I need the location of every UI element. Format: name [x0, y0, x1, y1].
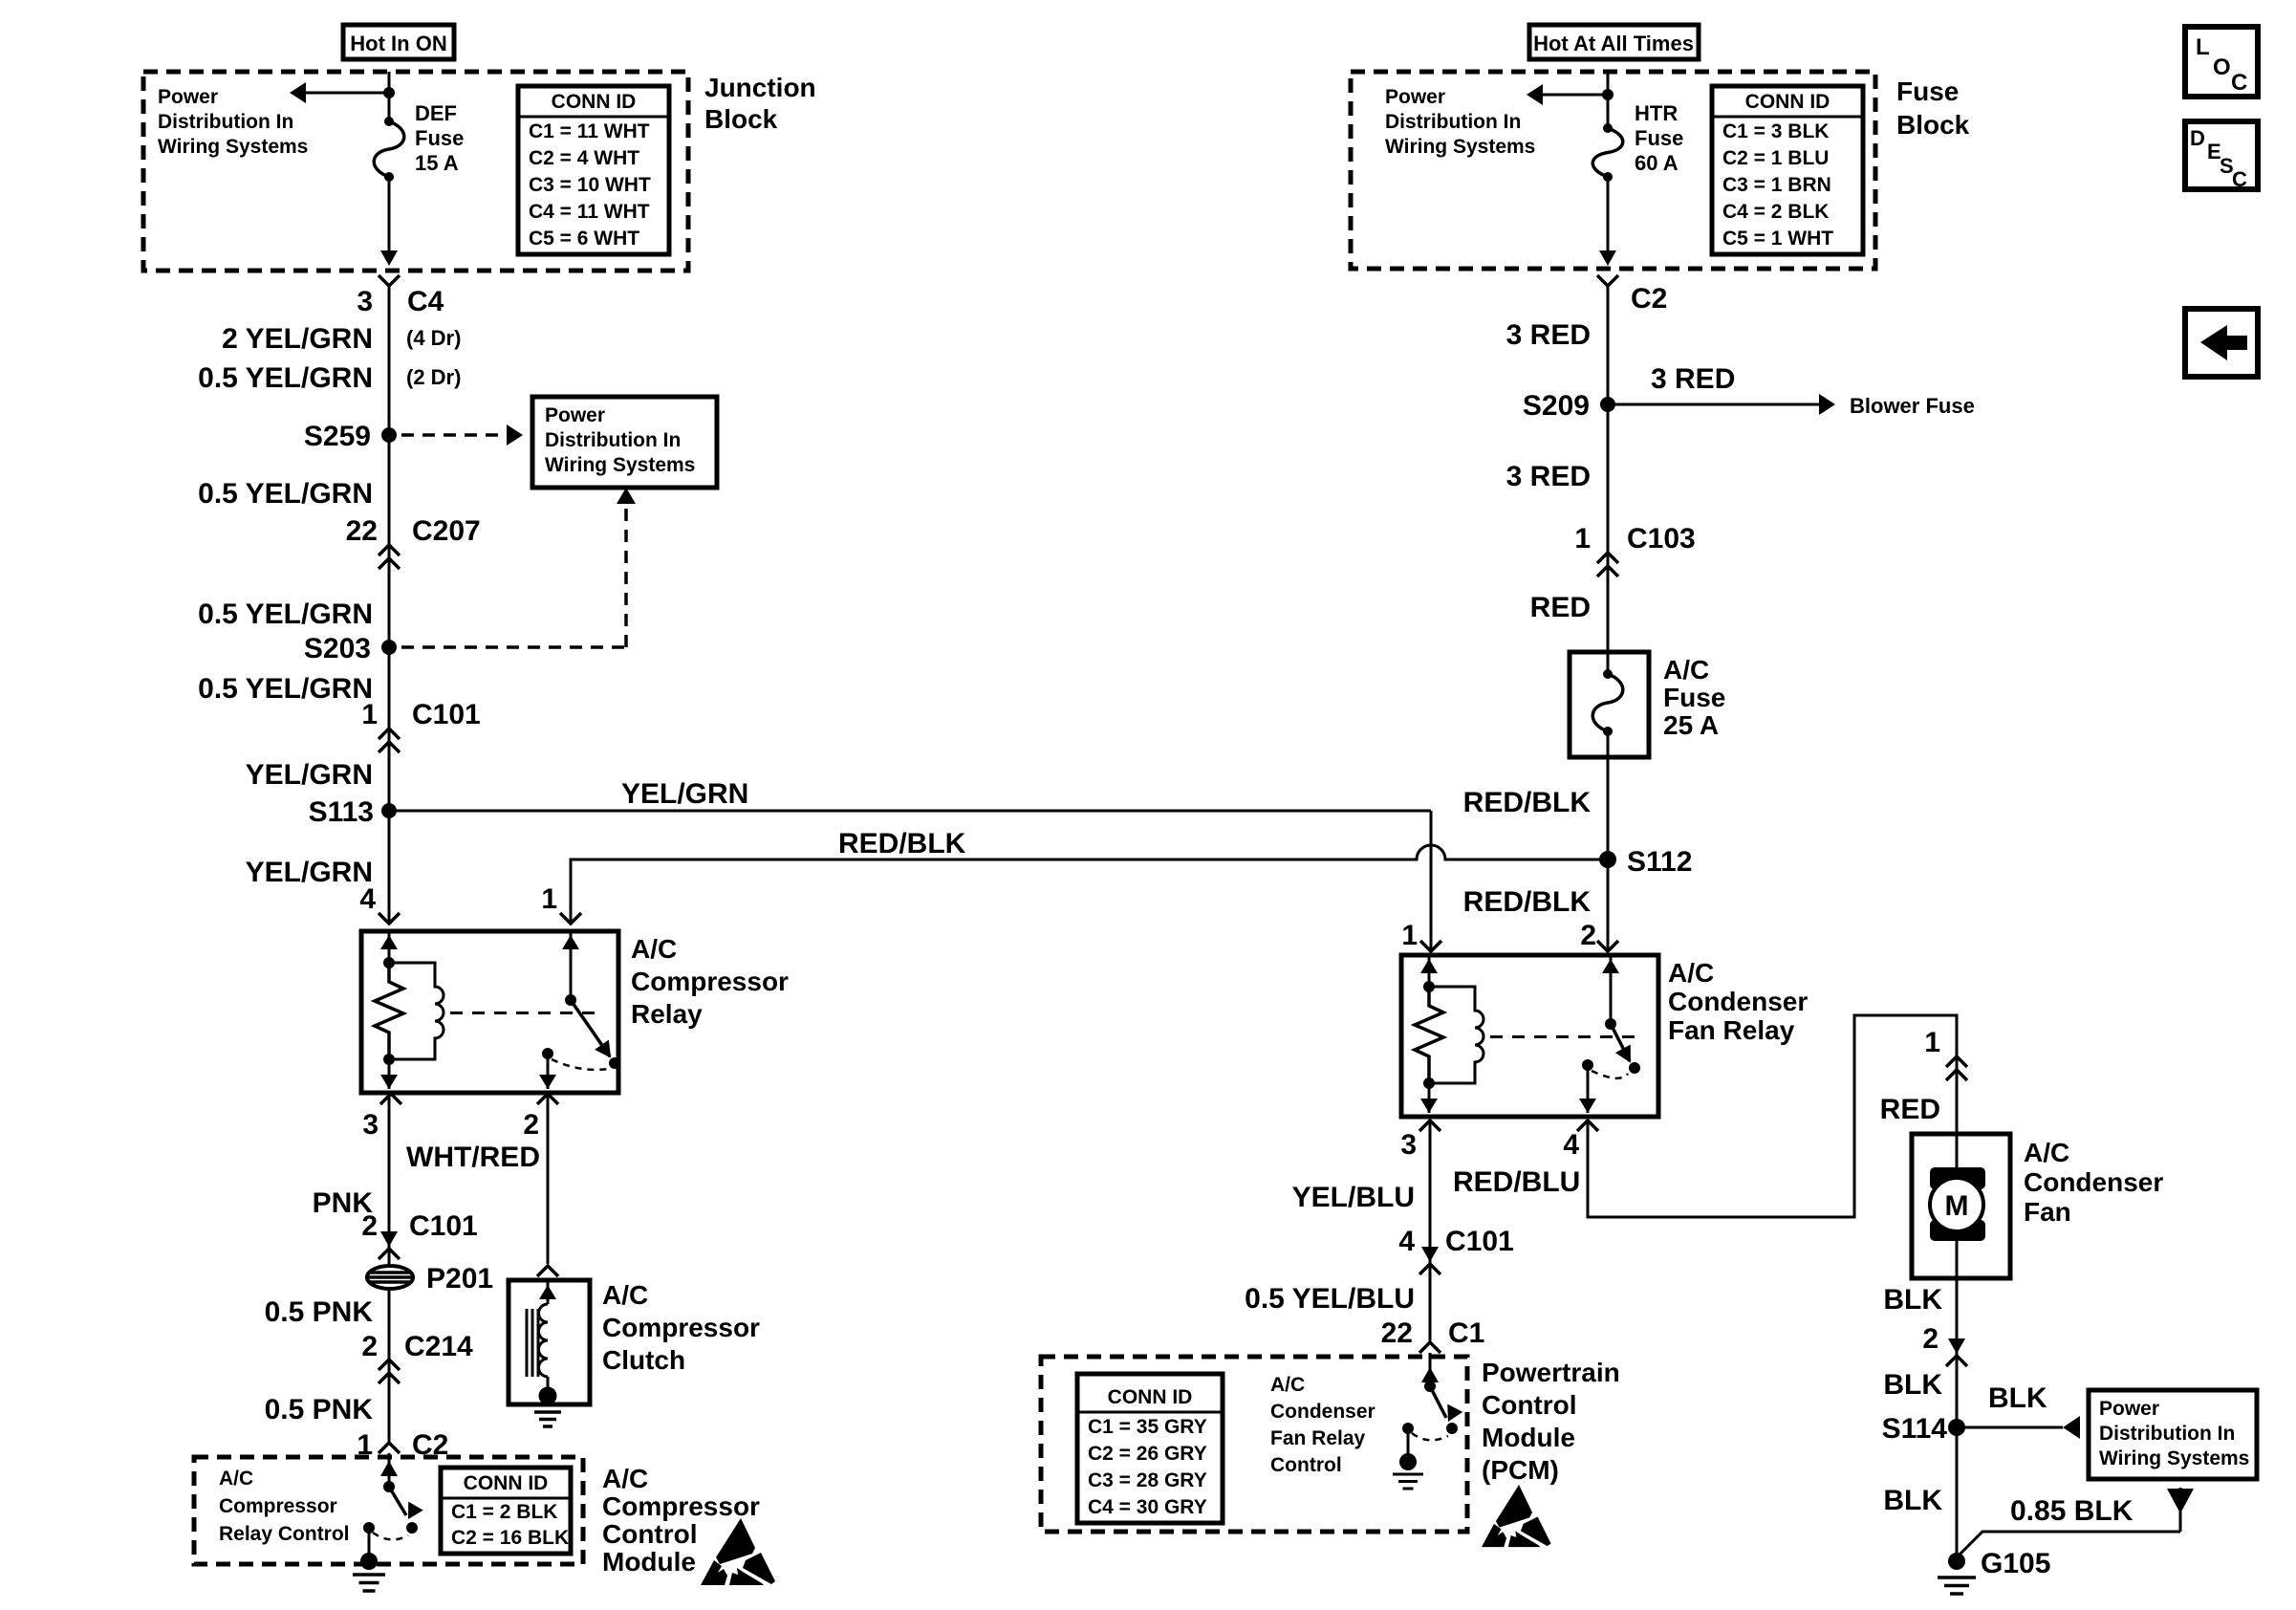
- wire: feed into DEF fuse: [388, 72, 391, 121]
- svg-text:4: 4: [359, 883, 376, 915]
- node at junction feed: [383, 87, 395, 98]
- relay K: A/C Condenser Fan Relay switch: [1610, 957, 1613, 1024]
- svg-text:C103: C103: [1627, 523, 1696, 555]
- svg-text:Power: Power: [545, 404, 605, 426]
- svg-text:A/C: A/C: [602, 1280, 648, 1310]
- splice S113: [381, 803, 397, 818]
- svg-text:0.5 YEL/GRN: 0.5 YEL/GRN: [198, 673, 373, 705]
- ground at clutch: [539, 1387, 557, 1405]
- svg-text:C5 = 1 WHT: C5 = 1 WHT: [1722, 228, 1833, 250]
- wire: S114 to power distribution, BLK: [1957, 1426, 2063, 1429]
- svg-text:Compressor: Compressor: [602, 1491, 760, 1521]
- relay K: A/C Compressor Relay coil branch: [388, 933, 391, 963]
- svg-text:1: 1: [1924, 1027, 1940, 1058]
- svg-text:C1: C1: [1448, 1317, 1484, 1349]
- svg-text:M: M: [1945, 1190, 1969, 1222]
- wire: C4 to S259, YEL/GRN: [388, 286, 391, 435]
- wire: fan to pin 2, BLK: [1956, 1278, 1959, 1427]
- svg-text:HTR: HTR: [1635, 101, 1678, 125]
- svg-text:60 A: 60 A: [1635, 151, 1679, 175]
- wire: S209 to blower fuse, 3 RED: [1608, 403, 1819, 406]
- svg-text:C2 = 1 BLU: C2 = 1 BLU: [1722, 147, 1829, 169]
- svg-text:0.5 YEL/BLU: 0.5 YEL/BLU: [1245, 1283, 1415, 1315]
- box: Power Distribution In Wiring Systems (right): [2089, 1390, 2257, 1479]
- svg-text:YEL/BLU: YEL/BLU: [1292, 1182, 1415, 1213]
- svg-text:A/C: A/C: [1668, 958, 1714, 988]
- svg-text:Hot At All Times: Hot At All Times: [1533, 32, 1694, 55]
- svg-text:Powertrain: Powertrain: [1482, 1358, 1620, 1387]
- wire into module: [388, 1453, 391, 1487]
- fuse block dashed box: [1351, 72, 1875, 269]
- box: Power Distribution In Wiring Systems (ref): [532, 397, 717, 488]
- wire: arrow to power distribution (fuse block): [1539, 94, 1608, 97]
- svg-text:Compressor: Compressor: [602, 1313, 760, 1342]
- svg-text:S112: S112: [1627, 846, 1692, 878]
- svg-text:Blower Fuse: Blower Fuse: [1850, 394, 1975, 418]
- wire: feed into HTR fuse: [1607, 72, 1610, 128]
- wire: S203 to C101, 0.5 YEL/GRN: [388, 647, 391, 811]
- svg-text:RED: RED: [1530, 592, 1591, 623]
- svg-text:DEF: DEF: [415, 101, 457, 125]
- conn table: module CONN ID: [441, 1468, 571, 1554]
- svg-text:BLK: BLK: [1883, 1485, 1942, 1516]
- relay K: A/C Condenser Fan Relay actuation dashed link: [1490, 1035, 1636, 1038]
- component: A/C Compressor Clutch box: [509, 1280, 590, 1404]
- switch: condenser fan relay driver: [1424, 1381, 1436, 1392]
- svg-text:CONN ID: CONN ID: [552, 91, 637, 113]
- svg-text:C: C: [2231, 70, 2247, 96]
- wire: C2 to S209, 3 RED: [1607, 286, 1610, 404]
- wire: A/C fuse to S112, RED/BLK: [1607, 757, 1610, 859]
- wire: RED/BLK from S112 west to compressor relay pin 1 with hop: [571, 845, 1608, 924]
- svg-text:22: 22: [346, 515, 378, 547]
- svg-text:S203: S203: [304, 633, 371, 664]
- svg-text:2: 2: [1580, 920, 1596, 951]
- fuse F: A/C Fuse 25 A box: [1570, 652, 1649, 757]
- svg-text:C207: C207: [412, 515, 481, 547]
- svg-text:Condenser: Condenser: [1270, 1401, 1375, 1423]
- relay K: A/C Condenser Fan Relay box: [1401, 955, 1658, 1117]
- svg-text:4: 4: [1398, 1226, 1415, 1257]
- svg-text:1: 1: [1574, 523, 1591, 555]
- svg-text:0.5 PNK: 0.5 PNK: [265, 1394, 374, 1425]
- wire: YEL/GRN from S113 to condenser fan relay pin 1: [389, 810, 1431, 813]
- relay K: A/C Condenser Fan Relay coil branch: [1428, 957, 1431, 987]
- icon box: back arrow: [2185, 309, 2258, 377]
- icon box: LOC: [2185, 27, 2258, 97]
- svg-text:Distribution In: Distribution In: [2099, 1423, 2235, 1445]
- svg-text:Fan Relay: Fan Relay: [1270, 1427, 1366, 1449]
- icon box: DESC: [2185, 121, 2258, 189]
- relay pin 3 connector: [380, 1094, 401, 1104]
- svg-text:1: 1: [1401, 920, 1418, 951]
- svg-text:0.5 YEL/GRN: 0.5 YEL/GRN: [198, 598, 373, 630]
- connector C2 (fuse block exit): [1597, 275, 1618, 286]
- svg-text:Hot In ON: Hot In ON: [350, 32, 446, 55]
- svg-text:A/C: A/C: [631, 934, 677, 964]
- splice pack P201: [367, 1266, 413, 1289]
- svg-text:Relay: Relay: [631, 999, 703, 1029]
- svg-text:C1 = 3 BLK: C1 = 3 BLK: [1722, 120, 1829, 142]
- svg-text:Control: Control: [1482, 1390, 1577, 1420]
- component: A/C Condenser Fan box: [1912, 1134, 2010, 1278]
- svg-text:RED/BLK: RED/BLK: [1463, 787, 1592, 818]
- svg-text:C4 = 2 BLK: C4 = 2 BLK: [1722, 201, 1829, 223]
- svg-text:C3 = 1 BRN: C3 = 1 BRN: [1722, 174, 1831, 196]
- splice S112: [1599, 851, 1616, 868]
- svg-text:C4: C4: [407, 286, 444, 317]
- dashed wire: S259 to power distribution: [401, 433, 505, 437]
- svg-text:Module: Module: [602, 1547, 696, 1577]
- conn table: junction block CONN ID: [518, 86, 669, 254]
- svg-text:C3 = 28 GRY: C3 = 28 GRY: [1088, 1469, 1207, 1491]
- svg-text:2: 2: [1922, 1323, 1939, 1355]
- wire: P201 to C214, 0.5 PNK: [388, 1288, 391, 1443]
- fan relay pin 3 connector: [1419, 1120, 1440, 1131]
- junction block dashed box: [143, 72, 688, 271]
- svg-text:Power: Power: [1385, 86, 1445, 108]
- ground (module internal): [360, 1553, 378, 1570]
- svg-text:0.85 BLK: 0.85 BLK: [2010, 1495, 2134, 1527]
- ground (PCM internal): [1399, 1453, 1417, 1470]
- relay K: A/C Compressor Relay resistor: [375, 963, 403, 1059]
- wire to ground inside module: [368, 1528, 371, 1560]
- svg-text:1: 1: [361, 699, 378, 730]
- svg-text:C4 = 30 GRY: C4 = 30 GRY: [1088, 1496, 1207, 1518]
- svg-text:A/C: A/C: [2024, 1138, 2069, 1167]
- svg-text:YEL/GRN: YEL/GRN: [246, 857, 373, 888]
- relay K: A/C Compressor Relay box: [361, 931, 618, 1093]
- svg-text:Condenser: Condenser: [1668, 987, 1808, 1016]
- svg-text:S209: S209: [1523, 390, 1590, 422]
- svg-text:0.5 PNK: 0.5 PNK: [265, 1296, 374, 1328]
- svg-text:0.5 YEL/GRN: 0.5 YEL/GRN: [198, 478, 373, 510]
- svg-text:C2 = 4 WHT: C2 = 4 WHT: [529, 147, 639, 169]
- wire: S259 to C207, 0.5 YEL/GRN: [388, 435, 391, 647]
- svg-text:2 YEL/GRN: 2 YEL/GRN: [222, 323, 373, 355]
- svg-text:4: 4: [1563, 1129, 1579, 1161]
- svg-text:C2: C2: [1631, 283, 1667, 315]
- conn table: fuse block CONN ID: [1712, 86, 1863, 254]
- splice S203: [381, 640, 397, 655]
- svg-text:C4 = 11 WHT: C4 = 11 WHT: [529, 201, 650, 223]
- relay K: A/C Compressor Relay actuation dashed link: [450, 1012, 596, 1014]
- motor M: [1956, 1134, 1959, 1172]
- icon: ESD sensitivity (PCM): [1482, 1485, 1551, 1547]
- relay K: A/C Compressor Relay switch: [570, 933, 573, 1000]
- svg-text:Junction: Junction: [704, 73, 816, 102]
- svg-text:A/C: A/C: [219, 1468, 253, 1490]
- svg-text:A/C: A/C: [602, 1464, 648, 1493]
- svg-text:C5 = 6 WHT: C5 = 6 WHT: [529, 228, 639, 250]
- svg-text:Power: Power: [158, 86, 218, 108]
- ground G105: [1948, 1553, 1965, 1570]
- svg-text:15 A: 15 A: [415, 151, 459, 175]
- wire: pin 3 down, PNK: [388, 1094, 391, 1267]
- svg-text:Wiring Systems: Wiring Systems: [545, 454, 695, 476]
- svg-text:Power: Power: [2099, 1398, 2159, 1420]
- svg-text:C101: C101: [409, 1210, 478, 1242]
- svg-text:CONN ID: CONN ID: [464, 1472, 549, 1494]
- svg-text:3 RED: 3 RED: [1506, 319, 1591, 351]
- wire: S113 down to relay pin 4, YEL/GRN: [388, 811, 391, 924]
- svg-text:O: O: [2213, 54, 2231, 80]
- relay K: A/C Condenser Fan Relay resistor: [1415, 987, 1443, 1083]
- wire: arrow to power distribution: [302, 92, 389, 95]
- svg-text:BLK: BLK: [1883, 1369, 1942, 1401]
- svg-text:CONN ID: CONN ID: [1745, 91, 1830, 113]
- svg-text:Wiring Systems: Wiring Systems: [2099, 1447, 2249, 1469]
- svg-text:Control: Control: [602, 1519, 698, 1549]
- svg-text:3: 3: [357, 286, 373, 317]
- wire: pin 4 RED/BLU to condenser fan: [1588, 1015, 1957, 1217]
- fuse F: HTR Fuse 60 A: [1603, 123, 1613, 133]
- svg-text:3 RED: 3 RED: [1651, 363, 1735, 395]
- svg-text:Clutch: Clutch: [602, 1345, 685, 1375]
- relay K: A/C Compressor Relay coil: [389, 963, 444, 1059]
- svg-text:22: 22: [1381, 1317, 1413, 1349]
- wire: HTR fuse to C2: [1607, 177, 1610, 262]
- svg-text:P201: P201: [426, 1263, 493, 1295]
- svg-text:3 RED: 3 RED: [1506, 461, 1591, 492]
- svg-text:Fan Relay: Fan Relay: [1668, 1015, 1795, 1045]
- icon: ESD sensitivity (compressor module): [701, 1518, 775, 1585]
- svg-text:C3 = 10 WHT: C3 = 10 WHT: [529, 174, 651, 196]
- svg-text:G105: G105: [1981, 1548, 2050, 1579]
- clutch coil: [539, 1304, 549, 1377]
- connector C4 (junction block exit): [379, 275, 400, 286]
- svg-text:Fuse: Fuse: [1896, 76, 1959, 106]
- svg-text:RED/BLK: RED/BLK: [838, 828, 966, 859]
- svg-text:Module: Module: [1482, 1423, 1575, 1452]
- svg-text:(2 Dr): (2 Dr): [406, 365, 461, 389]
- svg-text:Distribution In: Distribution In: [158, 111, 293, 133]
- svg-text:Distribution In: Distribution In: [1385, 111, 1521, 133]
- svg-text:Condenser: Condenser: [2024, 1167, 2163, 1197]
- svg-text:(4 Dr): (4 Dr): [406, 326, 461, 350]
- svg-text:C2 = 26 GRY: C2 = 26 GRY: [1088, 1443, 1207, 1465]
- svg-text:Wiring Systems: Wiring Systems: [158, 136, 308, 158]
- svg-text:BLK: BLK: [1988, 1382, 2047, 1414]
- svg-text:3: 3: [362, 1109, 379, 1141]
- svg-text:L: L: [2196, 34, 2210, 60]
- clutch plates: [526, 1309, 529, 1377]
- svg-text:Control: Control: [1270, 1454, 1342, 1476]
- connector at clutch pin: [537, 1266, 558, 1276]
- svg-text:C: C: [2232, 167, 2247, 191]
- svg-text:Fan: Fan: [2024, 1197, 2071, 1227]
- switch: compressor relay control driver: [383, 1481, 395, 1492]
- svg-text:25 A: 25 A: [1663, 710, 1719, 740]
- relay K: A/C Condenser Fan Relay coil: [1429, 987, 1484, 1083]
- svg-text:2: 2: [361, 1331, 378, 1362]
- svg-text:C101: C101: [412, 699, 481, 730]
- dashed wire: S203 to power distribution box: [401, 645, 626, 649]
- wire: S209 to C103, 3 RED: [1607, 404, 1610, 652]
- svg-text:Fuse: Fuse: [1663, 683, 1725, 712]
- svg-text:Fuse: Fuse: [1635, 126, 1683, 150]
- svg-text:Distribution In: Distribution In: [545, 429, 681, 451]
- fan relay pin 4 connector: [1577, 1120, 1598, 1131]
- svg-text:RED: RED: [1880, 1094, 1940, 1125]
- svg-text:CONN ID: CONN ID: [1108, 1386, 1193, 1408]
- fuse F: DEF Fuse 15 A: [384, 117, 394, 126]
- svg-text:C101: C101: [1445, 1226, 1514, 1257]
- svg-text:Wiring Systems: Wiring Systems: [1385, 136, 1535, 158]
- splice S209: [1600, 397, 1615, 412]
- conn table: PCM CONN ID: [1077, 1374, 1223, 1523]
- svg-text:C1 = 11 WHT: C1 = 11 WHT: [529, 120, 650, 142]
- svg-text:RED/BLK: RED/BLK: [1463, 886, 1592, 918]
- svg-text:S113: S113: [309, 796, 374, 828]
- svg-text:Relay Control: Relay Control: [219, 1523, 350, 1545]
- svg-text:0.5 YEL/GRN: 0.5 YEL/GRN: [198, 362, 373, 394]
- svg-text:D: D: [2190, 126, 2205, 150]
- wire: pin 2 to clutch, WHT/RED: [547, 1094, 550, 1264]
- svg-text:1: 1: [541, 883, 557, 915]
- svg-text:A/C: A/C: [1663, 655, 1709, 685]
- svg-text:C2 = 16 BLK: C2 = 16 BLK: [451, 1527, 569, 1549]
- svg-text:YEL/GRN: YEL/GRN: [246, 759, 373, 791]
- svg-text:2: 2: [361, 1210, 378, 1242]
- label box: Hot At All Times: [1529, 25, 1699, 59]
- svg-text:Fuse: Fuse: [415, 126, 464, 150]
- svg-text:Block: Block: [1896, 110, 1970, 140]
- wire: pin 3 down YEL/BLU: [1429, 1120, 1432, 1342]
- relay pin 2 connector: [537, 1094, 558, 1104]
- wire to ground inside PCM: [1407, 1428, 1410, 1462]
- svg-text:WHT/RED: WHT/RED: [406, 1142, 540, 1173]
- wire into PCM: [1429, 1353, 1432, 1386]
- svg-text:(PCM): (PCM): [1482, 1455, 1559, 1485]
- node at fuse block feed: [1602, 89, 1614, 100]
- wire: 0.85 BLK from power distribution to G105: [2167, 1489, 2194, 1513]
- module: A/C Compressor Control Module dashed box: [194, 1457, 583, 1564]
- svg-text:Block: Block: [704, 104, 778, 134]
- svg-text:Compressor: Compressor: [631, 967, 789, 996]
- svg-text:C1 = 2 BLK: C1 = 2 BLK: [451, 1501, 557, 1523]
- svg-text:S114: S114: [1882, 1413, 1948, 1445]
- svg-text:3: 3: [1400, 1129, 1417, 1161]
- svg-text:Compressor: Compressor: [219, 1495, 337, 1517]
- wire: DEF fuse to C4: [388, 177, 391, 262]
- svg-text:A/C: A/C: [1270, 1374, 1305, 1396]
- label box: Hot In ON: [343, 25, 454, 59]
- svg-text:YEL/GRN: YEL/GRN: [621, 778, 748, 810]
- wire: S112 to fan relay pin 2, RED/BLK: [1607, 859, 1610, 951]
- svg-text:RED/BLU: RED/BLU: [1453, 1166, 1580, 1198]
- module: PCM dashed box: [1041, 1357, 1467, 1532]
- svg-text:C214: C214: [404, 1331, 473, 1362]
- splice S114: [1948, 1419, 1965, 1436]
- splice S259: [381, 427, 397, 443]
- svg-text:2: 2: [523, 1109, 539, 1141]
- wire: S114 down to G105, BLK: [1956, 1427, 1959, 1561]
- svg-text:S259: S259: [304, 421, 371, 452]
- svg-text:C1 = 35 GRY: C1 = 35 GRY: [1088, 1416, 1207, 1438]
- svg-text:BLK: BLK: [1883, 1284, 1942, 1316]
